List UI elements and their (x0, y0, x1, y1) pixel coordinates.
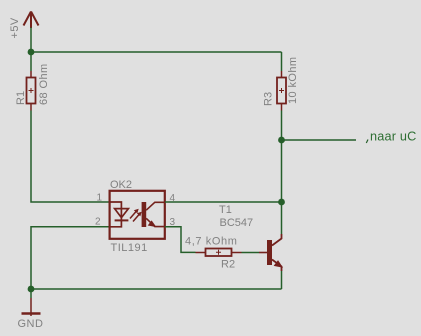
svg-text:10 kOhm: 10 kOhm (287, 57, 299, 104)
wire R3 to node (281, 111, 283, 141)
svg-text:4,7 kOhm: 4,7 kOhm (185, 236, 238, 248)
OK2 internal LED (110, 202, 128, 227)
resistor R1 (27, 71, 36, 111)
svg-text:OK2: OK2 (110, 179, 132, 191)
resistor R3 (277, 71, 286, 111)
wire R2 to T1 base (242, 252, 260, 254)
wire node to GND symbol (30, 289, 32, 298)
wire naar uC (282, 139, 357, 141)
svg-text:GND: GND (18, 318, 44, 330)
transistor T1 (259, 234, 282, 271)
OK2 light arrows (130, 209, 142, 222)
svg-text:R1: R1 (15, 91, 27, 105)
wire top rail (31, 51, 282, 53)
node junction (31,52) (28, 49, 35, 56)
svg-text:naar uC: naar uC (370, 130, 417, 144)
wire R1 to opto pin1 (31, 111, 110, 203)
svg-text:2: 2 (95, 217, 101, 228)
svg-text:BC547: BC547 (220, 217, 254, 229)
wire +5V to node (30, 28, 32, 53)
node label origin mark (366, 140, 368, 144)
svg-text:R3: R3 (263, 92, 275, 106)
node junction (281.5,202) (278, 199, 285, 206)
wire opto pin4 to collector node (165, 201, 282, 203)
ground GND (22, 298, 41, 316)
wire opto pin2 to GND rail (31, 227, 110, 289)
wire emitter to bottom rail (281, 271, 283, 289)
wire top rail to R3 (281, 52, 283, 71)
OK2 phototransistor (142, 202, 165, 227)
op-amp OK2 optocoupler box (110, 191, 165, 239)
wire bottom rail (31, 288, 282, 290)
svg-text:68 Ohm: 68 Ohm (38, 63, 50, 105)
wire opto pin3 to R2 (165, 227, 196, 253)
supply +5V (24, 12, 39, 29)
node junction (281.5,140) (278, 137, 285, 144)
svg-text:TIL191: TIL191 (111, 242, 148, 254)
wire node to R1 (30, 52, 32, 71)
svg-text:1: 1 (97, 193, 103, 204)
node junction (31,289) (28, 286, 35, 293)
resistor R2 (196, 249, 242, 257)
svg-text:R2: R2 (221, 259, 235, 271)
wire node down to collector node (281, 140, 283, 202)
wire collector to node (281, 202, 283, 234)
svg-text:T1: T1 (219, 204, 232, 216)
svg-text:+5V: +5V (9, 17, 21, 38)
